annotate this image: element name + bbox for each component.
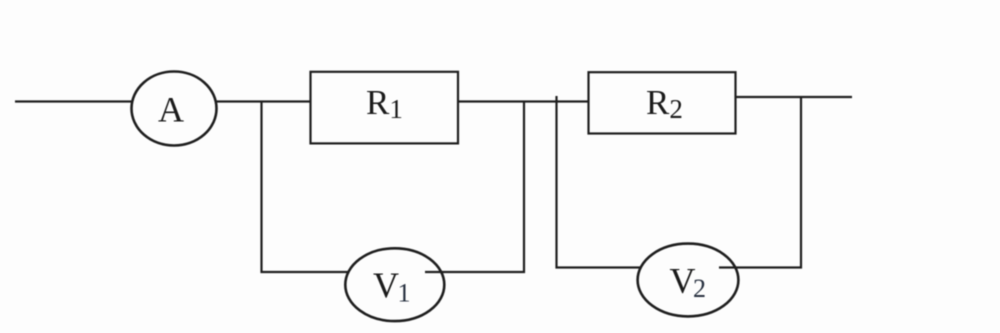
ammeter A circle	[132, 72, 217, 146]
svg-text:R1: R1	[366, 83, 403, 124]
wire vertical branch V1 right	[523, 102, 525, 274]
wire vertical branch V2 left	[555, 96, 557, 269]
wire V2 bottom right	[719, 266, 802, 268]
svg-text:V2: V2	[670, 260, 707, 303]
wire ammeter to node A (R1 left)	[216, 100, 311, 102]
svg-text:V1: V1	[373, 265, 411, 308]
wire V1 bottom right	[425, 271, 525, 273]
svg-text:A: A	[158, 90, 184, 130]
resistor R2 box	[589, 72, 736, 133]
wire R2 right to right lead	[735, 96, 852, 98]
wire left lead to ammeter	[15, 100, 132, 102]
wire V2 bottom left	[556, 266, 641, 268]
svg-text:R2: R2	[646, 83, 683, 124]
resistor R1 box	[311, 72, 459, 144]
wire vertical branch V2 right	[800, 97, 802, 269]
wire vertical branch V1 left	[260, 102, 262, 274]
wire V1 bottom left	[261, 271, 349, 273]
voltmeter V1 ellipse	[345, 248, 444, 321]
voltmeter V2 ellipse	[638, 244, 739, 317]
wire R1 right to R2 left	[457, 100, 589, 102]
